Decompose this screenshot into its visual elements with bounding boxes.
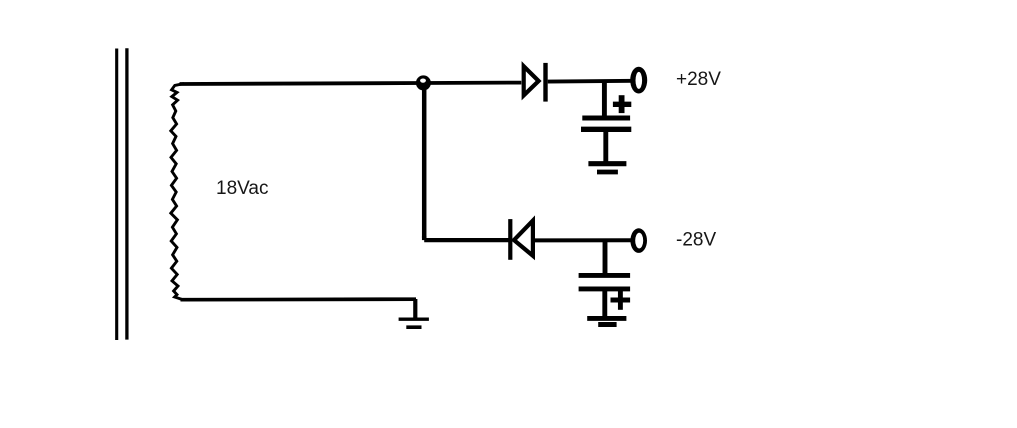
- svg-text:+28V: +28V: [676, 69, 721, 90]
- svg-text:18Vac: 18Vac: [216, 178, 268, 199]
- svg-text:-28V: -28V: [676, 230, 716, 251]
